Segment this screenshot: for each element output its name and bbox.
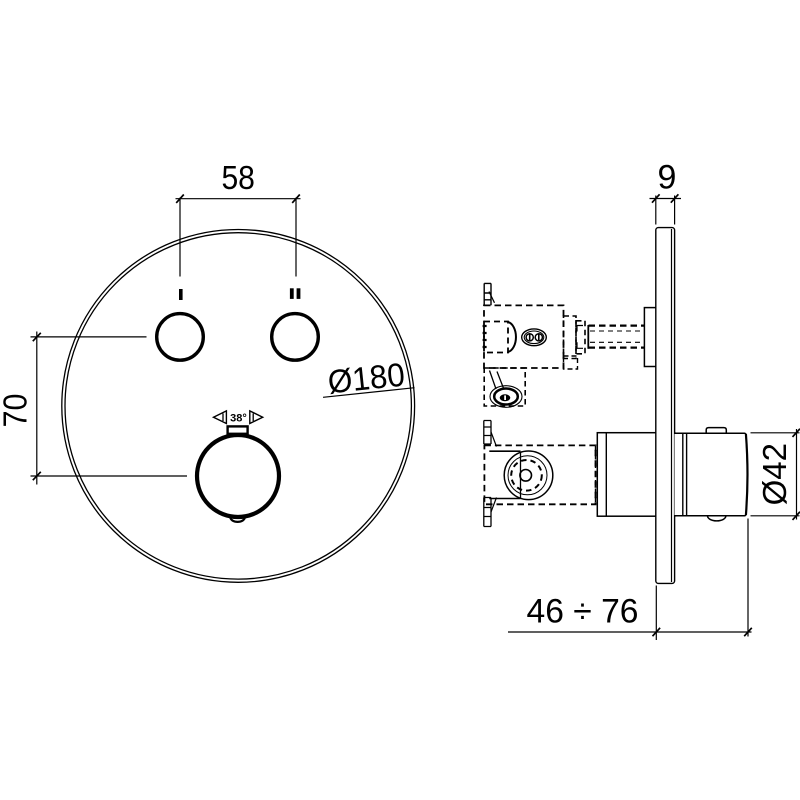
faceplate inner circle	[65, 233, 411, 579]
tick bottom	[793, 512, 800, 520]
tick right	[292, 195, 300, 203]
valve cap face line	[520, 452, 522, 498]
connector hooks	[577, 326, 583, 349]
extension line lower	[31, 475, 188, 477]
38° left arrow	[214, 411, 227, 424]
extension line upper	[31, 336, 147, 338]
extension bottom	[751, 515, 800, 517]
tick right	[671, 194, 679, 202]
knob I circle	[157, 314, 204, 361]
tick left	[653, 628, 661, 636]
extension right (handle)	[747, 519, 749, 637]
threaded outlet pipe top (hidden)	[589, 324, 645, 326]
dimension 70	[0, 332, 187, 485]
dim line Ø42	[796, 429, 798, 520]
dimension 9	[650, 159, 682, 225]
label II	[290, 288, 294, 299]
handle skirt line 2	[686, 433, 688, 516]
dim line 70	[36, 332, 38, 485]
upper inlet pipe (hidden)	[484, 322, 508, 353]
tick left	[176, 195, 184, 203]
svg-text:38°: 38°	[230, 413, 247, 425]
extension left (plate)	[655, 586, 657, 641]
bracket nut outer thin	[490, 386, 522, 408]
cartridge screw slots	[530, 334, 539, 340]
cartridge screw left	[526, 334, 533, 341]
bracket nut ring	[494, 389, 518, 405]
extension line right	[295, 198, 297, 277]
handle front face edge	[746, 434, 748, 515]
label I	[179, 289, 183, 300]
wall plate	[656, 228, 675, 584]
valve cap mid circle	[508, 456, 547, 495]
lower flange serrated top	[484, 421, 491, 445]
tick right	[744, 628, 752, 636]
dimension 58	[176, 159, 301, 277]
handle top button	[706, 428, 726, 434]
bracket arm lines	[490, 371, 497, 390]
outlet connector step 2 (hidden)	[576, 321, 585, 354]
svg-text:46 ÷ 76: 46 ÷ 76	[527, 592, 639, 630]
handle Ø42	[675, 428, 748, 521]
outlet connector step 1 (hidden)	[564, 316, 577, 359]
svg-text:70: 70	[0, 394, 34, 428]
body hidden edge	[595, 446, 597, 504]
tick left	[652, 194, 660, 202]
body inner edge line	[605, 433, 607, 517]
dimension Ø42	[751, 429, 800, 520]
dim line 46-76	[508, 631, 752, 633]
pipe inner wall top (hidden)	[590, 330, 644, 332]
valve stem circle	[520, 470, 532, 482]
dim line 9	[650, 198, 682, 200]
knob II circle	[272, 314, 319, 361]
extension lines 9	[655, 196, 657, 225]
extension line left	[179, 198, 181, 277]
stub pipe top line	[489, 450, 520, 452]
threaded outlet pipe bottom (hidden)	[589, 346, 645, 348]
lower flange serrated bottom	[484, 498, 491, 527]
wall plate face line	[671, 229, 673, 582]
dimension 46÷76	[508, 519, 752, 641]
valve body through-wall	[597, 433, 674, 517]
38° right arrow	[250, 411, 263, 424]
dim line 58	[176, 198, 301, 200]
valve cap outer circle	[504, 451, 553, 500]
tick top	[793, 429, 800, 437]
handle skirt line 1	[682, 433, 684, 516]
lower bracket of upper valve (hidden)	[484, 368, 525, 406]
cartridge oval outer	[522, 329, 547, 346]
cartridge oval inner	[524, 331, 544, 344]
step fitting lower right of upper valve (hidden)	[564, 356, 578, 369]
bracket nut center	[500, 394, 511, 401]
stub pipe bottom line	[489, 498, 520, 500]
pipe inner wall bottom (hidden)	[590, 341, 644, 343]
inlet pipe end cap arc	[508, 322, 516, 352]
extension top	[751, 432, 800, 434]
thermostat knob top tab	[228, 426, 248, 433]
handle outline	[675, 433, 748, 516]
tick bottom	[33, 472, 41, 480]
tick top	[33, 333, 41, 341]
handle bottom lug	[708, 511, 726, 521]
lower valve body (hidden outline)	[484, 445, 595, 504]
faceplate outer circle	[62, 230, 415, 583]
thermostat knob bottom lug	[230, 513, 244, 522]
wall boss upper	[644, 308, 656, 367]
cartridge screw right	[535, 334, 542, 341]
upper valve body (hidden outline)	[484, 305, 564, 368]
svg-text:58: 58	[221, 159, 255, 196]
svg-text:Ø42: Ø42	[756, 443, 793, 505]
thermostat knob	[197, 435, 279, 517]
dimension Ø180	[320, 355, 415, 401]
upper mounting stub serrated	[484, 283, 491, 305]
inlet pipe wall serration ticks	[483, 326, 487, 347]
connector face line	[587, 325, 589, 349]
leader line Ø180	[323, 388, 414, 398]
valve cap hidden circle	[511, 460, 542, 491]
svg-text:9: 9	[658, 159, 677, 197]
